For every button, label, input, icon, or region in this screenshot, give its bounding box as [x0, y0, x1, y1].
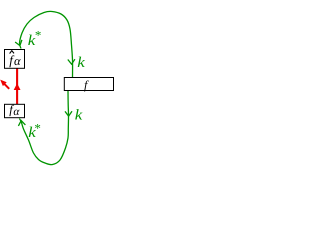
- wire top arc from f_hat box over apex to f box: [19, 11, 72, 77]
- svg-text:*: *: [35, 28, 42, 43]
- svg-text:α: α: [13, 106, 20, 118]
- arrowhead top-left into f_hat: [15, 40, 22, 46]
- wire bottom arc from f box around bottom to f_alpha box: [19, 91, 68, 165]
- svg-text:α: α: [14, 54, 21, 68]
- red arrowhead mid (up): [14, 83, 21, 90]
- arrowhead bottom-right from f: [65, 111, 72, 116]
- arrowhead bottom-left into f_alpha: [18, 121, 25, 126]
- svg-text:*: *: [34, 121, 41, 136]
- red diagonal arrow cut at edge: [5, 84, 10, 89]
- svg-text:k: k: [77, 55, 85, 71]
- svg-text:k: k: [75, 108, 83, 124]
- box f: [64, 78, 113, 91]
- arrowhead top-right into f: [68, 59, 75, 64]
- box f_alpha: [5, 104, 25, 117]
- box f_hat_alpha: [5, 50, 25, 69]
- red arrow f_alpha to f_hat_alpha: [16, 69, 18, 105]
